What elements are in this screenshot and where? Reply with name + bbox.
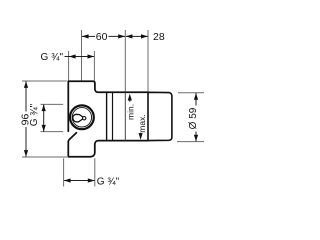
sleeve contour line [112,93,114,140]
dia 59 top arrow [194,93,198,100]
dimension 28 line [126,35,148,37]
dimension 28 right arrow [141,34,148,38]
cartridge inner circle [72,108,91,127]
side G3/4 bottom arrow [42,125,46,132]
bottom G3/4 left extension line [63,158,65,186]
bottom G3/4 dimension line [64,180,95,182]
svg-text:max.: max. [137,114,147,132]
dia 59 top extension line [178,92,204,94]
top G3/4 left arrow [69,54,76,58]
bottom G3/4 left arrow [64,178,71,182]
top G3/4 right extension line [93,51,95,81]
bottom G3/4 right arrow [88,178,95,182]
dia 59 bottom extension line [177,141,204,143]
svg-text:Ø 59: Ø 59 [188,107,199,129]
min depth line across sleeve [124,92,126,140]
flange contour line [106,93,108,140]
svg-text:min.: min. [125,104,135,120]
dia 59 dimension line [195,93,197,106]
side G3/4 top arrow [42,104,46,111]
bottom G3/4 right extension line [94,158,96,186]
dimension 96 bottom arrow [24,150,28,157]
cartridge outer ring [70,105,94,129]
centerline extension (vertical, top axis) [81,30,83,81]
top G3/4 left extension line [68,51,70,81]
valve body outline [68,81,148,157]
protection cap [148,92,172,140]
96 top extension line [22,80,67,82]
dimension 60 line [82,35,95,37]
96 bottom extension line [22,156,67,158]
dia 59 bottom arrow [194,135,198,142]
top G3/4 dimension line [65,56,95,58]
svg-text:28: 28 [153,31,165,43]
side G3/4 top extension line [41,103,64,105]
spindle tip circle [83,117,86,120]
valve body fill [68,81,148,157]
svg-text:60: 60 [96,31,108,43]
side G3/4 dimension line [43,104,45,131]
svg-text:G ¾": G ¾" [97,176,120,187]
svg-text:G ¾": G ¾" [41,52,64,63]
min depth line extension [124,30,126,92]
max annotation arrow [140,133,142,136]
dimension 96 line [25,81,27,111]
side G3/4 bottom extension line [41,131,64,133]
top G3/4 right arrow [88,54,95,58]
dimension 96 top arrow [24,81,28,88]
spindle blob [73,114,83,122]
max depth line extension [147,30,149,92]
svg-text:G ¾": G ¾" [29,103,40,126]
dimension 28 left arrow [126,34,133,38]
dimension 60 left arrow [82,34,89,38]
dimension 60 right arrow [118,34,125,38]
min annotation arrow [129,98,131,102]
